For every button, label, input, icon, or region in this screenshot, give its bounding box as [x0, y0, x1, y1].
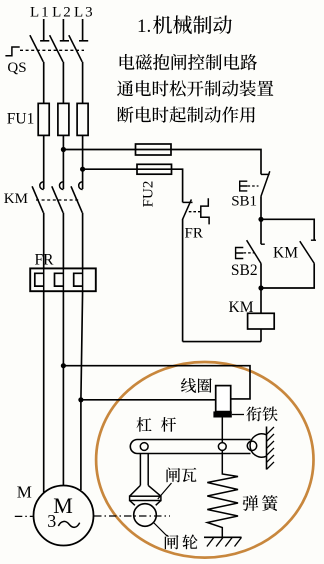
wire KM coil to bottom rail: [260, 329, 262, 342]
contactor KM main contact 1 blade: [32, 186, 43, 212]
label 衔铁 (armature): [246, 406, 277, 421]
brake coil body: [216, 386, 231, 412]
svg-text:FU2: FU2: [140, 181, 156, 208]
svg-text:M: M: [17, 483, 32, 502]
svg-text:L2: L2: [52, 5, 73, 21]
text line 断电时起制动作用: [117, 106, 255, 122]
pushbutton SB2 actuator E: [236, 248, 244, 259]
wire L1 supply stub: [43, 19, 45, 41]
leader line to 闸轮 label: [154, 523, 168, 537]
motor tilde ~: [58, 521, 79, 527]
switch QS handle: [5, 47, 19, 56]
wire node 1 to KM aux contact: [261, 219, 314, 240]
fuse FU1 pole 2: [58, 103, 69, 135]
thermal relay FR box: [30, 268, 96, 291]
leader line to 衔铁 label: [232, 414, 244, 416]
svg-text:FR: FR: [35, 252, 55, 269]
fuse FU2 lower: [137, 164, 172, 174]
wire phase 2 QS to FU1: [62, 62, 64, 104]
svg-text:FU1: FU1: [7, 111, 35, 128]
thermal contact FR blade: [183, 199, 192, 219]
fuse FU1 pole 1: [38, 103, 49, 135]
ground (spring anchor): [204, 537, 242, 546]
thermal contact FR actuator (dashed): [189, 211, 201, 213]
shaft centre line left (dash-dot): [15, 515, 33, 517]
shaft centre line (dash-dot): [94, 515, 170, 517]
lever left pivot pin: [140, 443, 148, 451]
text line 通电时松开制动装置: [117, 80, 273, 96]
pushbutton SB1 actuator link (dashed): [248, 185, 259, 187]
switch QS pole 1 fixed contact bar: [40, 40, 49, 42]
contactor KM auxiliary contact blade: [300, 241, 315, 263]
pushbutton SB2 tick: [261, 243, 265, 245]
leader line to 闸瓦 label: [158, 483, 172, 499]
switch QS pole 3 blade: [69, 35, 82, 62]
contactor KM main contact 2 blade: [52, 186, 63, 212]
thermal relay FR heater element 2: [55, 273, 64, 286]
svg-text:QS: QS: [7, 60, 26, 76]
svg-text:1.: 1.: [137, 16, 151, 37]
pushbutton SB2 blade: [247, 240, 262, 263]
pushbutton SB2 actuator link (dashed): [244, 252, 255, 254]
wire bottom rail: [183, 341, 261, 343]
wire phase 2 KM to FR: [62, 213, 64, 269]
switch QS pole 3 fixed contact bar: [79, 40, 88, 42]
contactor KM linkage (dashed): [36, 199, 80, 201]
switch QS pole 1 blade: [30, 35, 43, 62]
wire phase 2 FR to motor M: [62, 291, 64, 486]
wire phase 1 FU1 to KM: [43, 135, 45, 189]
contactor KM main contact 1 fixed-side arc: [40, 182, 44, 190]
wire phase 2 FU1 to KM: [62, 135, 64, 189]
wire phase 1 QS to FU1: [43, 62, 45, 104]
wire SB1 to node 1: [260, 196, 262, 219]
switch QS pole 2 blade: [50, 35, 63, 62]
label 闸轮 (brake wheel): [165, 534, 198, 549]
wire L3 supply stub: [82, 19, 84, 41]
wire SB2 to node 2: [260, 264, 262, 288]
wire phase 1 FR to motor M: [43, 291, 45, 492]
thermal contact FR actuator bracket: [201, 198, 209, 224]
switch QS pole 2 fixed contact bar: [60, 40, 69, 42]
junction node brake tap A: [61, 363, 66, 368]
brake shoe band: [130, 496, 161, 500]
wire phase 3 FU1 to KM: [82, 135, 84, 189]
wire node 1 to SB2: [260, 219, 262, 244]
thermal relay FR heater element 3: [74, 273, 83, 286]
fixed pivot bracket: [250, 434, 266, 457]
pushbutton SB1 tick: [261, 173, 270, 175]
armature link rod: [221, 418, 223, 443]
wire control second (tap B to FR contact): [83, 169, 183, 202]
wire FR contact to bottom rail: [182, 219, 184, 342]
wire brake coil branch B: [81, 399, 216, 401]
svg-text:L1: L1: [30, 5, 51, 21]
wire phase 3 KM to FR: [82, 213, 84, 269]
pushbutton SB1 actuator E: [240, 181, 248, 191]
pushbutton SB1 blade: [261, 171, 270, 196]
svg-text:3: 3: [47, 511, 56, 531]
junction node control tap A: [61, 147, 66, 152]
wire control top (tap A to SB1 branch): [63, 150, 261, 175]
wire phase 3 FR to motor M: [81, 291, 83, 490]
wire node 2 to KM coil: [260, 288, 262, 313]
junction node brake tap B: [78, 397, 83, 402]
label 杠杆 (lever): [136, 417, 176, 432]
lever middle pin: [218, 443, 226, 451]
svg-text:SB1: SB1: [231, 193, 257, 209]
fuse FU1 pole 3: [77, 103, 88, 135]
brake shoe flare: [130, 485, 141, 496]
wall mount hatching: [267, 427, 275, 470]
contactor KM main contact 3 blade: [71, 186, 82, 212]
wire phase 3 QS to FU1: [82, 62, 84, 104]
contactor KM main contact 3 fixed-side arc: [79, 182, 83, 190]
svg-text:L3: L3: [74, 5, 95, 21]
brake wheel 闸轮: [134, 504, 157, 527]
brake shoe lower sides: [130, 501, 135, 506]
text line 电磁抱闸控制电路: [120, 54, 257, 70]
label 弹簧 (spring): [243, 495, 278, 511]
label 线圈 (coil): [181, 378, 212, 393]
spring 弹簧: [207, 450, 238, 537]
junction node 1: [258, 217, 263, 222]
svg-text:KM: KM: [273, 245, 298, 262]
thermal relay FR heater element 1: [35, 273, 44, 286]
thermal contact FR tick: [183, 201, 193, 203]
brake armature block: [213, 411, 231, 417]
junction node 2: [258, 285, 263, 290]
wire L2 supply stub: [62, 19, 64, 41]
wire KM aux contact to node 2: [261, 264, 314, 288]
contactor coil KM body: [248, 313, 275, 329]
contactor KM main contact 2 fixed-side arc: [60, 182, 64, 190]
label 闸瓦 (brake shoe): [166, 467, 196, 482]
junction node control tap B: [80, 167, 85, 172]
fixed pivot pin: [247, 441, 256, 450]
svg-text:FR: FR: [185, 226, 203, 242]
motor M circle: [34, 486, 94, 546]
fuse FU2 upper: [136, 144, 172, 155]
highlight circle (brake mechanism): [96, 362, 313, 558]
svg-text:SB2: SB2: [231, 262, 258, 279]
contactor KM auxiliary contact tick: [311, 239, 316, 241]
wire phase 1 KM to FR: [43, 213, 45, 269]
svg-text:KM: KM: [4, 191, 28, 207]
lever bar: [130, 440, 250, 454]
wire brake coil branch A: [63, 366, 250, 399]
switch QS linkage (dashed): [20, 49, 84, 51]
brake linkage rod: [139, 454, 141, 486]
